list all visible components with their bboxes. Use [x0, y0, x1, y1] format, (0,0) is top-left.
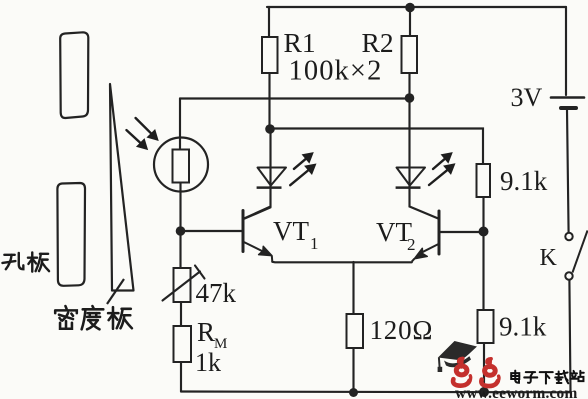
- svg-text:R: R: [197, 317, 215, 347]
- svg-text:www.eeworm.com: www.eeworm.com: [455, 385, 577, 399]
- svg-text:1k: 1k: [195, 348, 221, 377]
- svg-text:R2: R2: [362, 27, 394, 58]
- svg-text:1: 1: [310, 234, 319, 253]
- svg-text:VT: VT: [273, 216, 309, 246]
- svg-text:120Ω: 120Ω: [370, 315, 434, 345]
- svg-text:47k: 47k: [196, 278, 237, 308]
- svg-text:2: 2: [407, 235, 416, 254]
- svg-text:K: K: [540, 245, 558, 271]
- svg-text:100k×2: 100k×2: [289, 56, 383, 87]
- svg-text:R1: R1: [284, 27, 316, 58]
- svg-text:9.1k: 9.1k: [499, 312, 547, 342]
- svg-text:9.1k: 9.1k: [500, 166, 548, 196]
- svg-text:3V: 3V: [511, 83, 543, 112]
